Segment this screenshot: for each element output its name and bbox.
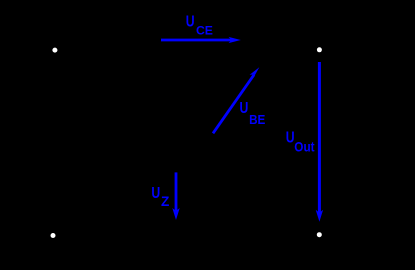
svg-text:U: U bbox=[286, 128, 295, 146]
svg-text:Z: Z bbox=[161, 194, 169, 209]
svg-text:CE: CE bbox=[196, 23, 213, 37]
svg-text:BE: BE bbox=[249, 113, 265, 128]
svg-text:U: U bbox=[151, 183, 160, 201]
svg-text:U: U bbox=[186, 12, 195, 30]
svg-text:U: U bbox=[240, 99, 249, 117]
svg-text:Out: Out bbox=[294, 140, 315, 155]
